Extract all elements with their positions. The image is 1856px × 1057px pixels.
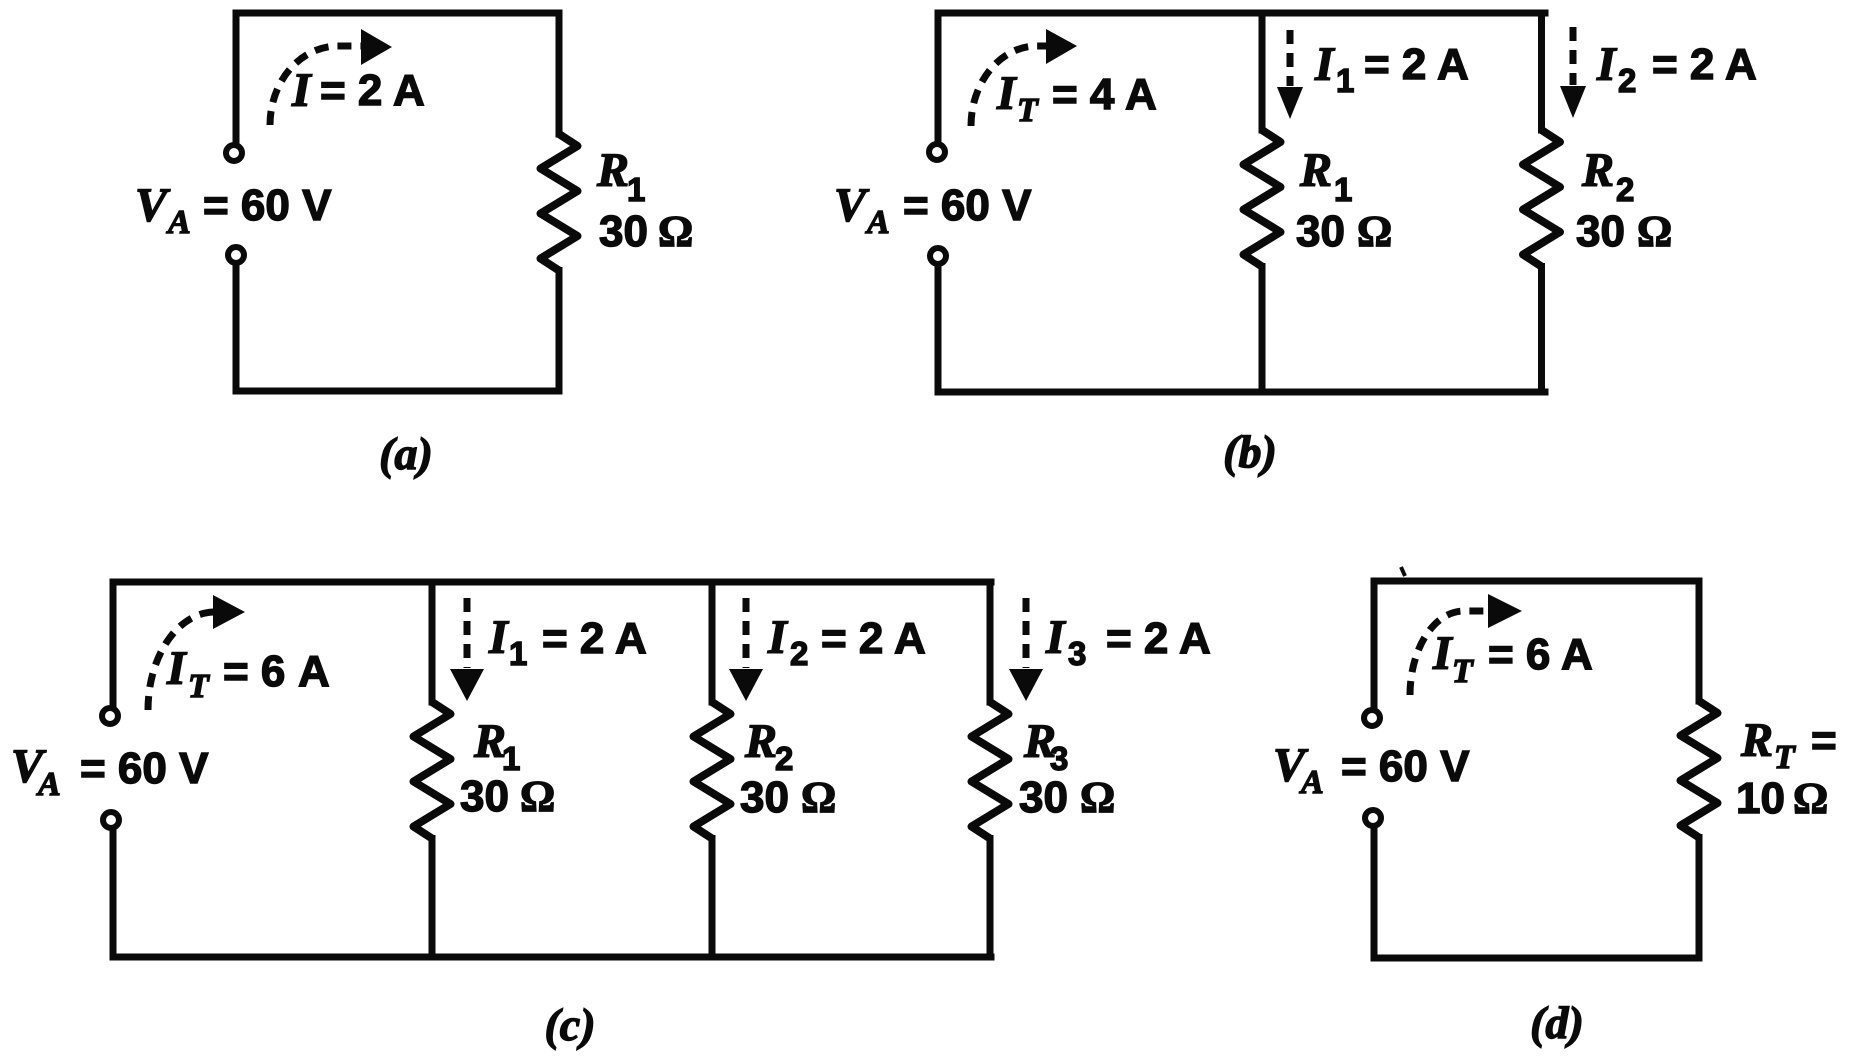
wire: bottom of loop (a) bbox=[236, 388, 559, 395]
terminal: upper source terminal (b) bbox=[929, 144, 945, 160]
wire: branch R2 lower (c) bbox=[709, 839, 716, 958]
svg-text:= 6: = 6 bbox=[223, 647, 285, 696]
svg-text:I: I bbox=[996, 67, 1018, 120]
svg-text:30: 30 bbox=[1019, 773, 1068, 822]
current arrow I head (a) bbox=[361, 29, 392, 65]
svg-text:R: R bbox=[1581, 144, 1614, 197]
wire: branch R1 upper (b) bbox=[1259, 13, 1266, 130]
svg-text:= 2 A: = 2 A bbox=[821, 614, 926, 663]
svg-text:V: V bbox=[834, 179, 870, 232]
svg-text:= 6 A: = 6 A bbox=[1488, 630, 1593, 679]
wire: left upper (d) bbox=[1371, 581, 1378, 707]
wire: branch R2 lower (b) bbox=[1538, 267, 1545, 393]
current arrow IT head (b) bbox=[1046, 29, 1077, 64]
svg-text:= 60 V: = 60 V bbox=[80, 744, 209, 793]
svg-text:I: I bbox=[291, 64, 313, 117]
svg-text:2: 2 bbox=[775, 740, 793, 777]
svg-text:A: A bbox=[865, 204, 890, 241]
svg-text:(a): (a) bbox=[379, 428, 433, 479]
svg-text:10: 10 bbox=[1736, 774, 1785, 823]
wire: right lower (a) bbox=[556, 271, 563, 392]
svg-text:30: 30 bbox=[460, 772, 509, 821]
terminal: upper source terminal (a) bbox=[226, 145, 242, 161]
wire: right upper (a) bbox=[556, 13, 563, 134]
svg-text:(d): (d) bbox=[1530, 997, 1584, 1048]
wire: branch R1 lower (c) bbox=[429, 839, 436, 958]
svg-text:A: A bbox=[36, 766, 61, 803]
wire: top of loop (c) bbox=[113, 579, 991, 586]
svg-text:I: I bbox=[1596, 38, 1618, 91]
current arrow I2 dashed (c) bbox=[743, 598, 750, 668]
svg-text:3: 3 bbox=[1050, 740, 1068, 777]
svg-text:(c): (c) bbox=[544, 999, 595, 1050]
svg-text:= 4 A: = 4 A bbox=[1052, 70, 1157, 119]
svg-text:30: 30 bbox=[1296, 207, 1345, 256]
svg-text:30: 30 bbox=[599, 207, 648, 256]
current arrow I2 head (c) bbox=[729, 669, 763, 701]
svg-text:= 2 A: = 2 A bbox=[1364, 40, 1469, 89]
wire: branch R1 upper (c) bbox=[429, 582, 436, 702]
resistor R2 (b) zigzag bbox=[1523, 130, 1560, 267]
stray tick mark above top wire (d) bbox=[1401, 567, 1405, 576]
svg-text:A: A bbox=[1299, 764, 1324, 801]
svg-text:I: I bbox=[767, 611, 789, 664]
terminal: lower source terminal (b) bbox=[930, 248, 946, 264]
svg-text:30: 30 bbox=[1576, 207, 1625, 256]
wire: right upper (d) bbox=[1696, 581, 1703, 701]
resistor R1 (c) zigzag bbox=[414, 702, 451, 839]
svg-text:A: A bbox=[166, 204, 191, 241]
svg-text:2: 2 bbox=[1616, 171, 1634, 208]
wire: left lower (b) bbox=[935, 267, 942, 392]
resistor R1 (b) zigzag bbox=[1244, 130, 1281, 267]
svg-text:I: I bbox=[1314, 38, 1336, 91]
wire: left upper (a) bbox=[233, 13, 240, 142]
terminal: upper source terminal (d) bbox=[1364, 710, 1380, 726]
current arrow I3 head (c) bbox=[1009, 669, 1043, 701]
svg-text:T: T bbox=[1452, 653, 1474, 690]
current arrow IT dashed arc (b) bbox=[971, 46, 1046, 126]
wire: branch R3 upper (c) bbox=[987, 582, 994, 702]
svg-text:Ω: Ω bbox=[520, 772, 555, 821]
current arrow I dashed arc (a) bbox=[270, 46, 361, 125]
svg-text:=: = bbox=[1811, 716, 1837, 765]
current arrow IT head (d) bbox=[1488, 594, 1522, 628]
svg-text:Ω: Ω bbox=[1637, 207, 1672, 256]
terminal: lower source terminal (a) bbox=[228, 247, 244, 263]
svg-text:= 2 A: = 2 A bbox=[1652, 40, 1757, 89]
svg-text:Ω: Ω bbox=[1357, 207, 1392, 256]
current arrow IT dashed arc (c) bbox=[148, 612, 216, 710]
resistor R1 (a) zigzag bbox=[541, 134, 578, 271]
svg-text:Ω: Ω bbox=[658, 207, 693, 256]
svg-text:R: R bbox=[1740, 714, 1773, 767]
current arrow I1 head (c) bbox=[450, 669, 484, 701]
current arrow I2 head (b) bbox=[1560, 86, 1586, 118]
wire: left lower (c) bbox=[110, 831, 117, 957]
svg-text:= 60 V: = 60 V bbox=[903, 181, 1032, 230]
svg-text:= 2 A: = 2 A bbox=[542, 614, 647, 663]
wire: top of loop (a) bbox=[236, 10, 559, 17]
svg-text:I: I bbox=[166, 642, 188, 695]
svg-text:3: 3 bbox=[1068, 635, 1086, 672]
wire: left lower (d) bbox=[1371, 829, 1378, 958]
current arrow I2 dashed (b) bbox=[1570, 27, 1577, 85]
resistor R2 (c) zigzag bbox=[694, 702, 731, 839]
svg-text:1: 1 bbox=[509, 635, 527, 672]
svg-text:= 2 A: = 2 A bbox=[1106, 614, 1211, 663]
current arrow IT dashed arc (d) bbox=[1410, 611, 1489, 695]
svg-text:V: V bbox=[135, 179, 171, 232]
svg-text:Ω: Ω bbox=[801, 773, 836, 822]
wire: right lower (d) bbox=[1696, 838, 1703, 959]
svg-text:R: R bbox=[1299, 144, 1332, 197]
svg-text:I: I bbox=[1045, 611, 1067, 664]
wire: left upper (c) bbox=[110, 582, 117, 705]
wire: bottom of loop (c) bbox=[113, 954, 991, 961]
svg-text:2: 2 bbox=[1618, 62, 1636, 99]
wire: branch R2 upper (b) bbox=[1538, 13, 1545, 130]
svg-text:2: 2 bbox=[790, 635, 808, 672]
wire: branch R2 upper (c) bbox=[709, 582, 716, 702]
svg-text:T: T bbox=[1017, 92, 1039, 129]
svg-text:T: T bbox=[1774, 739, 1796, 776]
svg-text:= 60 V: = 60 V bbox=[1341, 742, 1470, 791]
svg-text:Ω: Ω bbox=[1080, 773, 1115, 822]
svg-text:R: R bbox=[596, 144, 629, 197]
svg-text:T: T bbox=[188, 668, 210, 705]
terminal: upper source terminal (c) bbox=[102, 708, 118, 724]
current arrow I1 dashed (c) bbox=[464, 598, 471, 668]
svg-text:= 2 A: = 2 A bbox=[320, 66, 425, 115]
current arrow I1 head (b) bbox=[1277, 87, 1303, 119]
svg-text:1: 1 bbox=[1336, 62, 1354, 99]
svg-text:30: 30 bbox=[740, 773, 789, 822]
svg-text:I: I bbox=[488, 611, 510, 664]
wire: bottom of loop (b) bbox=[938, 389, 1545, 396]
wire: bottom of loop (d) bbox=[1374, 955, 1699, 962]
terminal: lower source terminal (d) bbox=[1365, 810, 1381, 826]
svg-text:(b): (b) bbox=[1223, 426, 1277, 477]
resistor RT (d) zigzag bbox=[1681, 701, 1718, 838]
svg-text:I: I bbox=[1432, 627, 1454, 680]
svg-text:= 60 V: = 60 V bbox=[203, 181, 332, 230]
svg-text:Ω: Ω bbox=[1793, 774, 1828, 823]
svg-text:A: A bbox=[298, 647, 330, 696]
current arrow I1 dashed (b) bbox=[1287, 30, 1294, 86]
wire: top of loop (d) bbox=[1374, 578, 1699, 585]
resistor R3 (c) zigzag bbox=[972, 702, 1009, 839]
wire: left lower (a) bbox=[233, 266, 240, 391]
terminal: lower source terminal (c) bbox=[103, 812, 119, 828]
wire: branch R3 lower (c) bbox=[987, 839, 994, 958]
wire: branch R1 lower (b) bbox=[1259, 267, 1266, 393]
svg-text:R: R bbox=[744, 715, 777, 768]
current arrow IT head (c) bbox=[213, 595, 245, 629]
wire: top of loop (b) bbox=[938, 10, 1545, 17]
svg-text:1: 1 bbox=[1334, 171, 1352, 208]
current arrow I3 dashed (c) bbox=[1023, 598, 1030, 668]
wire: left upper (b) bbox=[935, 13, 942, 141]
svg-text:1: 1 bbox=[627, 171, 645, 208]
